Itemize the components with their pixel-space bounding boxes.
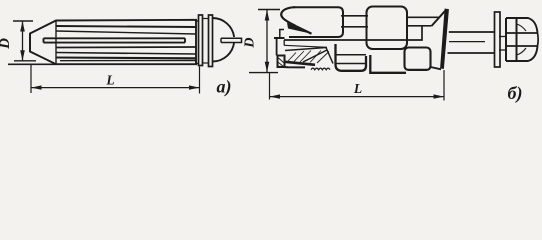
- bolt shaft middle line: [449, 41, 485, 43]
- slot tab on dome: [221, 38, 242, 44]
- cone bottom slant: [431, 67, 442, 69]
- bolt shaft bottom edge: [448, 52, 495, 54]
- upper link 2: [367, 7, 408, 50]
- scallops: [311, 68, 330, 70]
- claw step vertical: [276, 38, 278, 56]
- svg-text:б): б): [508, 83, 523, 104]
- body rib line 1: [56, 26, 196, 27]
- claw step nub: [279, 30, 284, 38]
- nut facet line upper: [506, 32, 538, 34]
- upper link 1: [289, 7, 343, 37]
- washer: [495, 12, 501, 67]
- dimension L (figure b) left arrow: [270, 94, 281, 98]
- flange ridge 1: [199, 15, 203, 66]
- svg-text:D: D: [243, 37, 258, 48]
- dimension L (figure b) left extension line: [269, 73, 271, 100]
- upper connector top line: [341, 15, 368, 17]
- dimension L (figure b) right arrow: [434, 94, 445, 98]
- claw step horizontal: [274, 37, 285, 39]
- groove bottom line: [203, 62, 209, 64]
- nut chamfer arc bottom: [517, 48, 527, 55]
- claw mid edge line: [284, 45, 327, 47]
- dowel body outline: [30, 20, 196, 64]
- dimension D (left) up arrow: [20, 21, 25, 32]
- body rib line 5: [56, 56, 196, 59]
- wedge bottom edge: [285, 62, 315, 65]
- dimension L (figure a) left arrow: [31, 85, 42, 89]
- dowel tip edge: [29, 34, 31, 52]
- nut inner facet edge: [516, 18, 518, 61]
- dimension D (right) bottom tick: [249, 72, 278, 74]
- svg-text:L: L: [105, 73, 114, 88]
- dimension D (right) up arrow: [265, 10, 270, 21]
- dome cap lower arc: [213, 43, 235, 62]
- wedge hatch lines: [288, 51, 329, 64]
- dimension D (right) dimension line: [266, 10, 268, 73]
- bolt shaft upper line (through shell): [284, 26, 422, 40]
- dimension D (left) bottom edge extension: [8, 63, 56, 65]
- groove top line: [203, 18, 209, 20]
- body rib line 3: [56, 46, 196, 49]
- nut facet line lower: [506, 45, 538, 47]
- neck top line: [196, 20, 199, 22]
- dimension D (left) dimension line: [22, 21, 24, 61]
- dimension L (figure a) left extension line: [30, 65, 32, 94]
- svg-text:L: L: [353, 81, 362, 96]
- cone face (dark bar): [441, 9, 449, 69]
- dimension L (figure b) dimension line: [270, 96, 445, 98]
- bolt shaft top edge: [449, 31, 494, 33]
- dimension D (right) top tick: [258, 9, 280, 11]
- body rib line 4: [56, 53, 196, 55]
- claw foot box: [278, 56, 306, 68]
- central slot: [44, 38, 186, 42]
- dome cap upper arc: [213, 18, 235, 37]
- dimension D (left) bottom tick: [14, 60, 36, 62]
- dimension L (figure a) right arrow: [189, 85, 200, 89]
- claw foot inner marks: [279, 58, 284, 67]
- hatched wedge: [285, 48, 333, 64]
- upper strap line 2: [407, 25, 432, 27]
- dimension D (right) down arrow: [265, 62, 270, 73]
- lower link B head bottom emphasis: [407, 69, 428, 71]
- nut middle band right edge: [537, 33, 540, 46]
- dimension L (figure a) dimension line: [31, 87, 200, 89]
- upper claw finger: [287, 23, 312, 34]
- upper connector bottom line: [341, 26, 368, 28]
- rod between washer and nut bottom: [499, 49, 506, 51]
- flange ridge 2: [209, 15, 213, 67]
- hex nut top edge: [506, 18, 538, 33]
- neck bottom line: [196, 63, 199, 65]
- lower link B head: [405, 48, 431, 71]
- hex nut left face: [505, 18, 507, 61]
- lower connector line 1: [336, 54, 367, 56]
- lower link B outline: [370, 55, 406, 73]
- wedge inner diagonal: [303, 50, 327, 62]
- hex nut bottom edge: [506, 46, 538, 61]
- svg-text:D: D: [0, 38, 13, 50]
- dimension D (left) down arrow: [20, 50, 25, 61]
- nut chamfer arc top: [517, 24, 527, 31]
- cone top slant: [432, 9, 447, 26]
- body rib line 2: [56, 31, 196, 34]
- lower link A U-shape: [336, 44, 367, 71]
- body rib line 6: [60, 60, 196, 62]
- upper strap line 1: [407, 16, 439, 18]
- cone/body junction line: [55, 21, 57, 65]
- dimension L (figure b) right extension line: [443, 70, 445, 101]
- dimension D (left) top extension tick: [13, 20, 33, 22]
- shell left outline with beak: [281, 7, 311, 34]
- claw inner vertical: [283, 40, 285, 45]
- svg-text:а): а): [217, 77, 232, 98]
- rod between washer and nut top: [499, 36, 506, 38]
- dimension L (figure a) right extension line: [199, 67, 201, 94]
- lower connector line 2: [336, 63, 367, 65]
